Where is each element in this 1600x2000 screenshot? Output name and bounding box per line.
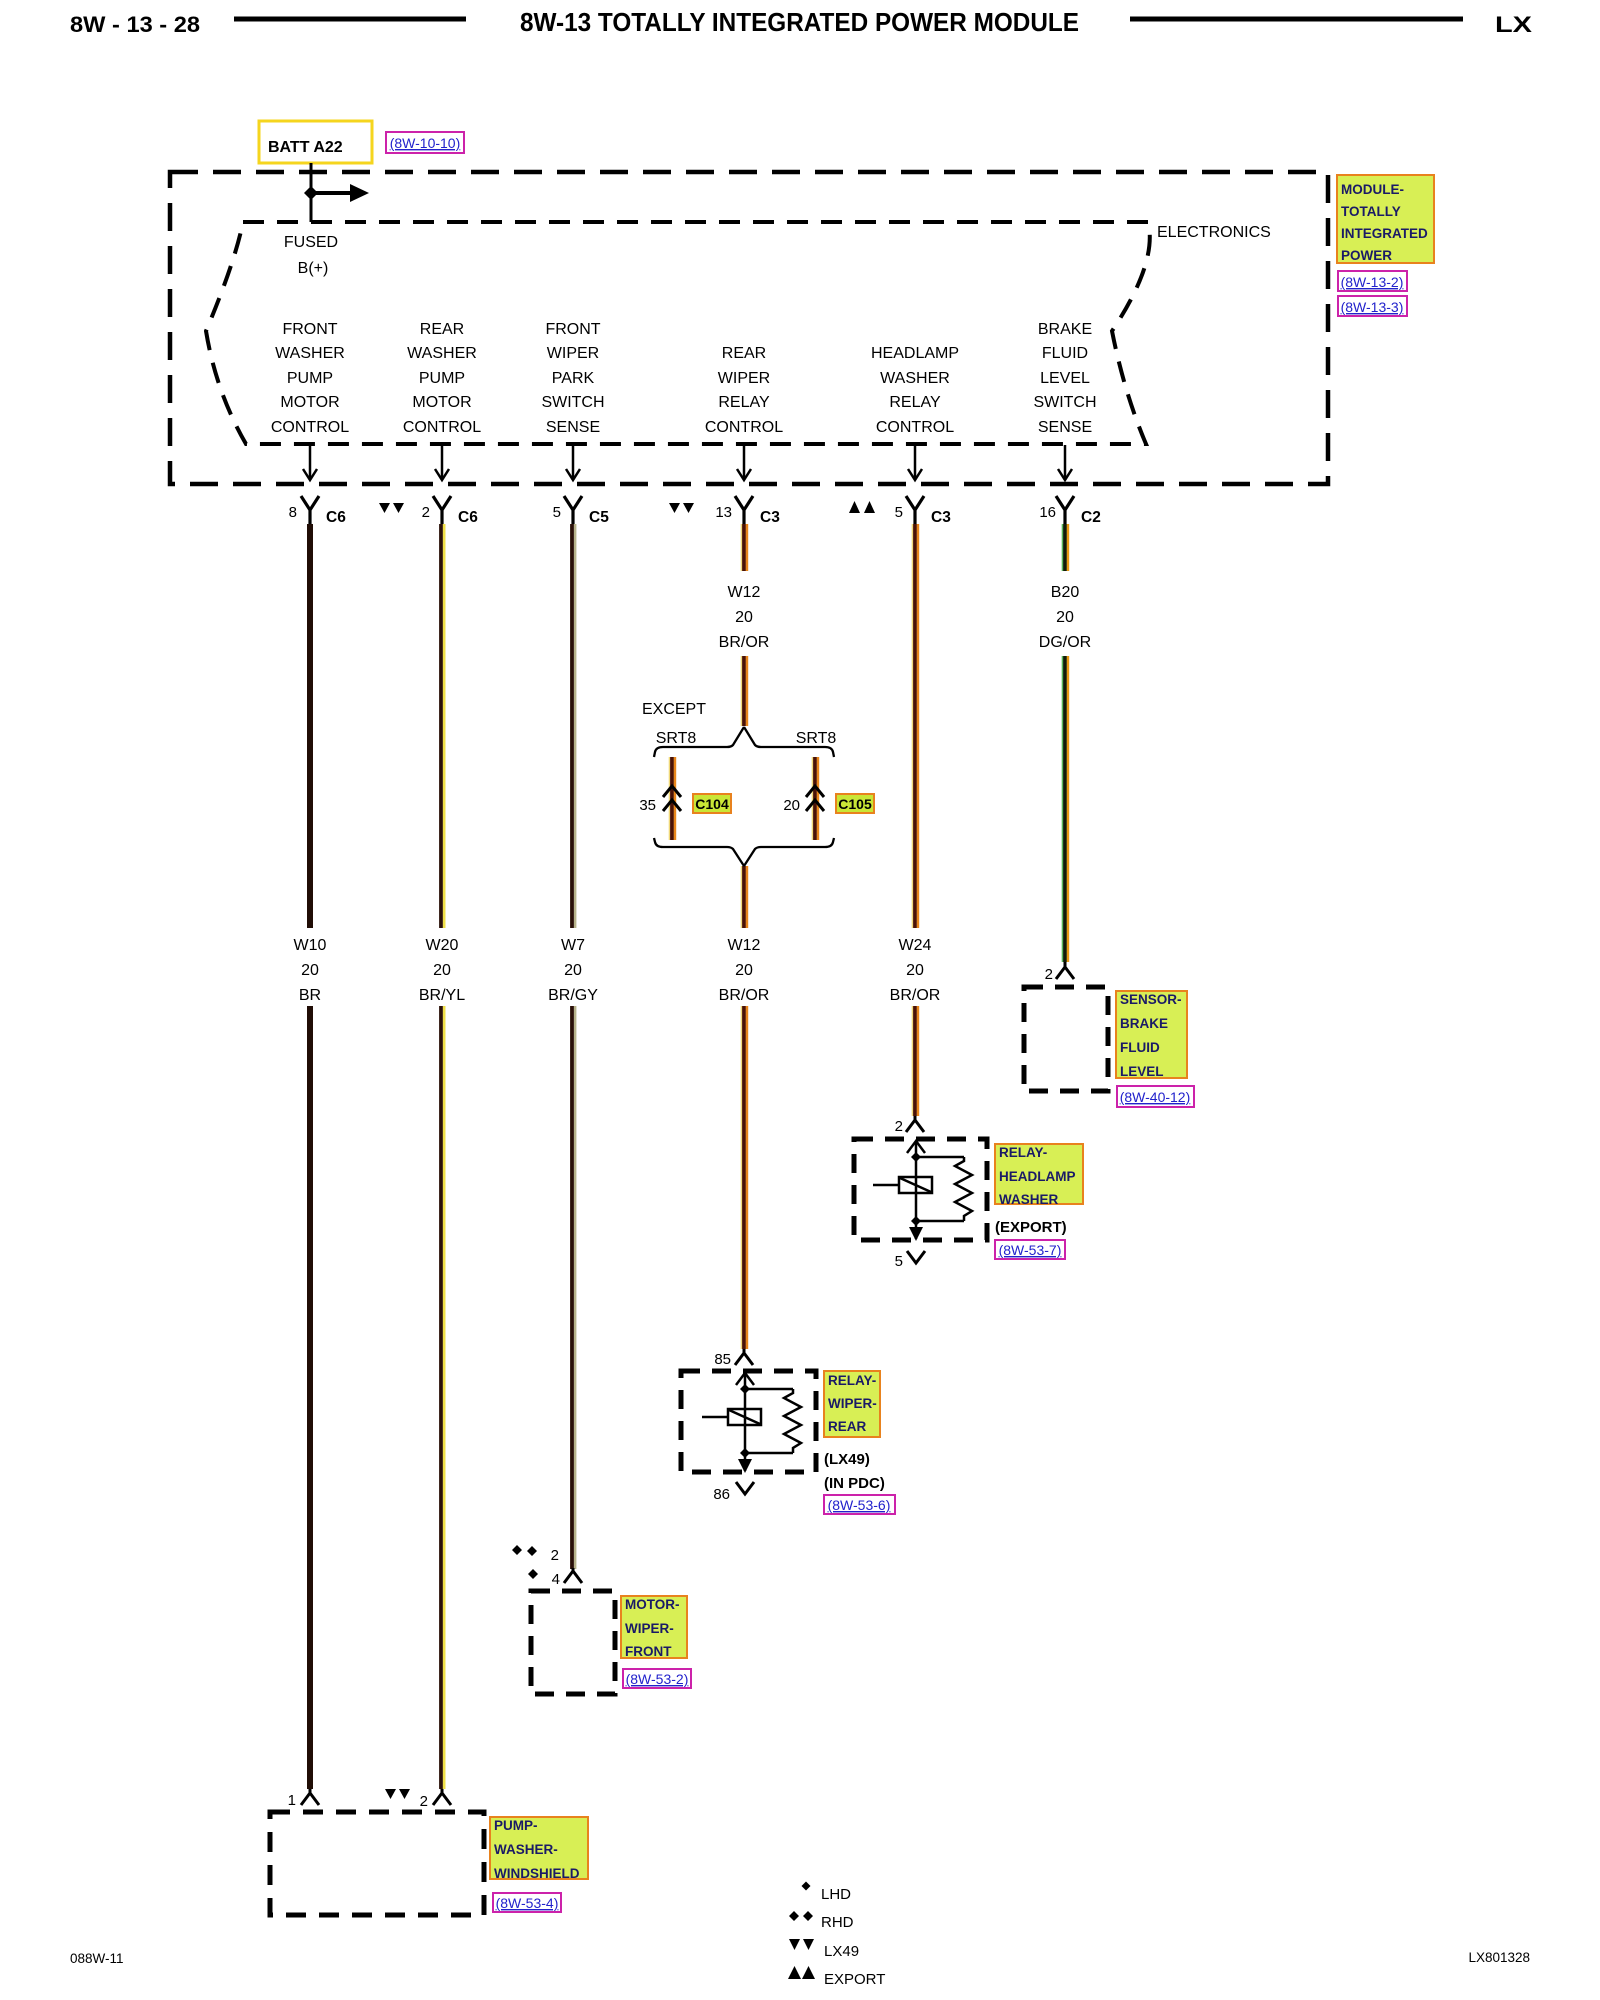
svg-text:LX801328: LX801328	[1468, 1950, 1530, 1965]
svg-text:(IN PDC): (IN PDC)	[824, 1475, 885, 1492]
svg-text:INTEGRATED: INTEGRATED	[1341, 226, 1428, 241]
svg-text:(LX49): (LX49)	[824, 1451, 870, 1468]
svg-text:SRT8: SRT8	[656, 730, 697, 747]
svg-text:SENSE: SENSE	[1038, 419, 1092, 436]
svg-text:SWITCH: SWITCH	[541, 394, 604, 411]
svg-text:(EXPORT): (EXPORT)	[995, 1219, 1067, 1236]
svg-text:RHD: RHD	[821, 1914, 854, 1931]
svg-text:BR/OR: BR/OR	[719, 634, 770, 651]
svg-text:REAR: REAR	[420, 321, 464, 338]
svg-text:5: 5	[895, 1253, 903, 1270]
svg-text:BR/OR: BR/OR	[890, 987, 941, 1004]
svg-text:WASHER: WASHER	[880, 370, 950, 387]
svg-text:088W-11: 088W-11	[70, 1951, 124, 1966]
svg-text:SRT8: SRT8	[796, 730, 837, 747]
svg-text:WASHER: WASHER	[999, 1192, 1059, 1207]
svg-text:LX49: LX49	[824, 1943, 859, 1960]
svg-text:86: 86	[713, 1486, 730, 1503]
svg-text:5: 5	[553, 504, 561, 521]
svg-text:(8W-10-10): (8W-10-10)	[390, 135, 461, 151]
svg-text:EXPORT: EXPORT	[824, 1971, 885, 1988]
svg-text:20: 20	[783, 797, 800, 814]
svg-text:BR/YL: BR/YL	[419, 987, 465, 1004]
svg-text:FUSED: FUSED	[284, 234, 338, 251]
svg-text:20: 20	[564, 962, 582, 979]
svg-text:(8W-13-2): (8W-13-2)	[1341, 274, 1404, 290]
svg-text:(8W-13-3): (8W-13-3)	[1341, 299, 1404, 315]
svg-text:PUMP: PUMP	[419, 370, 465, 387]
svg-text:4: 4	[552, 1571, 560, 1588]
svg-text:LX: LX	[1495, 12, 1532, 37]
svg-text:DG/OR: DG/OR	[1039, 634, 1091, 651]
svg-text:FLUID: FLUID	[1120, 1040, 1160, 1055]
svg-text:W24: W24	[899, 937, 932, 954]
svg-text:(8W-40-12): (8W-40-12)	[1120, 1089, 1191, 1105]
svg-text:20: 20	[735, 962, 753, 979]
svg-text:2: 2	[1045, 966, 1053, 983]
svg-text:8W - 13 - 28: 8W - 13 - 28	[70, 12, 200, 37]
svg-text:WINDSHIELD: WINDSHIELD	[494, 1866, 580, 1881]
svg-text:SENSE: SENSE	[546, 419, 600, 436]
svg-text:(8W-53-6): (8W-53-6)	[828, 1497, 891, 1513]
svg-text:2: 2	[420, 1793, 428, 1810]
svg-text:C6: C6	[458, 509, 478, 526]
svg-text:16: 16	[1039, 504, 1056, 521]
svg-text:REAR: REAR	[722, 345, 766, 362]
svg-text:SENSOR-: SENSOR-	[1120, 992, 1182, 1007]
svg-text:RELAY-: RELAY-	[828, 1373, 876, 1388]
svg-text:20: 20	[301, 962, 319, 979]
svg-text:(8W-53-2): (8W-53-2)	[626, 1671, 689, 1687]
svg-text:MOTOR: MOTOR	[280, 394, 339, 411]
svg-text:RELAY-: RELAY-	[999, 1145, 1047, 1160]
svg-text:REAR: REAR	[828, 1419, 867, 1434]
svg-text:WASHER-: WASHER-	[494, 1842, 558, 1857]
svg-text:BRAKE: BRAKE	[1120, 1016, 1168, 1031]
svg-text:W12: W12	[728, 584, 761, 601]
svg-text:(8W-53-4): (8W-53-4)	[496, 1895, 559, 1911]
svg-text:HEADLAMP: HEADLAMP	[871, 345, 959, 362]
svg-text:BR: BR	[299, 987, 321, 1004]
svg-text:POWER: POWER	[1341, 248, 1392, 263]
svg-text:PUMP-: PUMP-	[494, 1818, 538, 1833]
svg-text:BATT A22: BATT A22	[268, 139, 343, 156]
svg-text:13: 13	[715, 504, 732, 521]
svg-text:BR/OR: BR/OR	[719, 987, 770, 1004]
svg-text:CONTROL: CONTROL	[403, 419, 481, 436]
svg-text:LEVEL: LEVEL	[1040, 370, 1090, 387]
svg-text:MOTOR-: MOTOR-	[625, 1597, 680, 1612]
svg-text:WIPER: WIPER	[547, 345, 599, 362]
svg-text:CONTROL: CONTROL	[876, 419, 954, 436]
svg-text:SWITCH: SWITCH	[1033, 394, 1096, 411]
svg-text:5: 5	[895, 504, 903, 521]
svg-text:2: 2	[895, 1118, 903, 1135]
svg-text:W10: W10	[294, 937, 327, 954]
svg-text:C3: C3	[931, 509, 951, 526]
svg-text:BR/GY: BR/GY	[548, 987, 598, 1004]
svg-text:2: 2	[422, 504, 430, 521]
svg-text:WASHER: WASHER	[275, 345, 345, 362]
svg-text:W12: W12	[728, 937, 761, 954]
svg-text:PARK: PARK	[552, 370, 595, 387]
svg-text:C3: C3	[760, 509, 780, 526]
svg-text:CONTROL: CONTROL	[705, 419, 783, 436]
svg-text:C6: C6	[326, 509, 346, 526]
svg-text:W20: W20	[426, 937, 459, 954]
svg-text:C104: C104	[695, 796, 729, 812]
svg-text:WIPER: WIPER	[718, 370, 770, 387]
svg-text:C5: C5	[589, 509, 609, 526]
svg-text:20: 20	[1056, 609, 1074, 626]
svg-text:WIPER-: WIPER-	[828, 1396, 877, 1411]
svg-text:ELECTRONICS: ELECTRONICS	[1157, 224, 1271, 241]
svg-text:C105: C105	[838, 796, 872, 812]
svg-text:FLUID: FLUID	[1042, 345, 1088, 362]
svg-text:20: 20	[735, 609, 753, 626]
svg-text:FRONT: FRONT	[545, 321, 600, 338]
svg-text:BRAKE: BRAKE	[1038, 321, 1092, 338]
svg-text:MODULE-: MODULE-	[1341, 182, 1404, 197]
svg-text:B20: B20	[1051, 584, 1080, 601]
svg-text:35: 35	[639, 797, 656, 814]
svg-text:LHD: LHD	[821, 1886, 851, 1903]
svg-text:(8W-53-7): (8W-53-7)	[999, 1242, 1062, 1258]
svg-text:PUMP: PUMP	[287, 370, 333, 387]
svg-text:LEVEL: LEVEL	[1120, 1064, 1164, 1079]
svg-text:8W-13 TOTALLY INTEGRATED POWER: 8W-13 TOTALLY INTEGRATED POWER MODULE	[520, 7, 1079, 37]
svg-text:85: 85	[714, 1351, 731, 1368]
svg-text:FRONT: FRONT	[625, 1644, 672, 1659]
svg-text:W7: W7	[561, 937, 585, 954]
svg-text:RELAY: RELAY	[718, 394, 770, 411]
svg-text:8: 8	[289, 504, 297, 521]
svg-text:MOTOR: MOTOR	[412, 394, 471, 411]
svg-text:FRONT: FRONT	[282, 321, 337, 338]
svg-text:B(+): B(+)	[298, 260, 329, 277]
svg-text:TOTALLY: TOTALLY	[1341, 204, 1401, 219]
svg-text:EXCEPT: EXCEPT	[642, 701, 706, 718]
svg-text:HEADLAMP: HEADLAMP	[999, 1169, 1076, 1184]
svg-text:20: 20	[906, 962, 924, 979]
svg-text:2: 2	[551, 1547, 559, 1564]
svg-text:CONTROL: CONTROL	[271, 419, 349, 436]
svg-text:RELAY: RELAY	[889, 394, 941, 411]
svg-text:20: 20	[433, 962, 451, 979]
svg-text:WIPER-: WIPER-	[625, 1621, 674, 1636]
svg-text:1: 1	[288, 1792, 296, 1809]
svg-text:C2: C2	[1081, 509, 1101, 526]
svg-text:WASHER: WASHER	[407, 345, 477, 362]
